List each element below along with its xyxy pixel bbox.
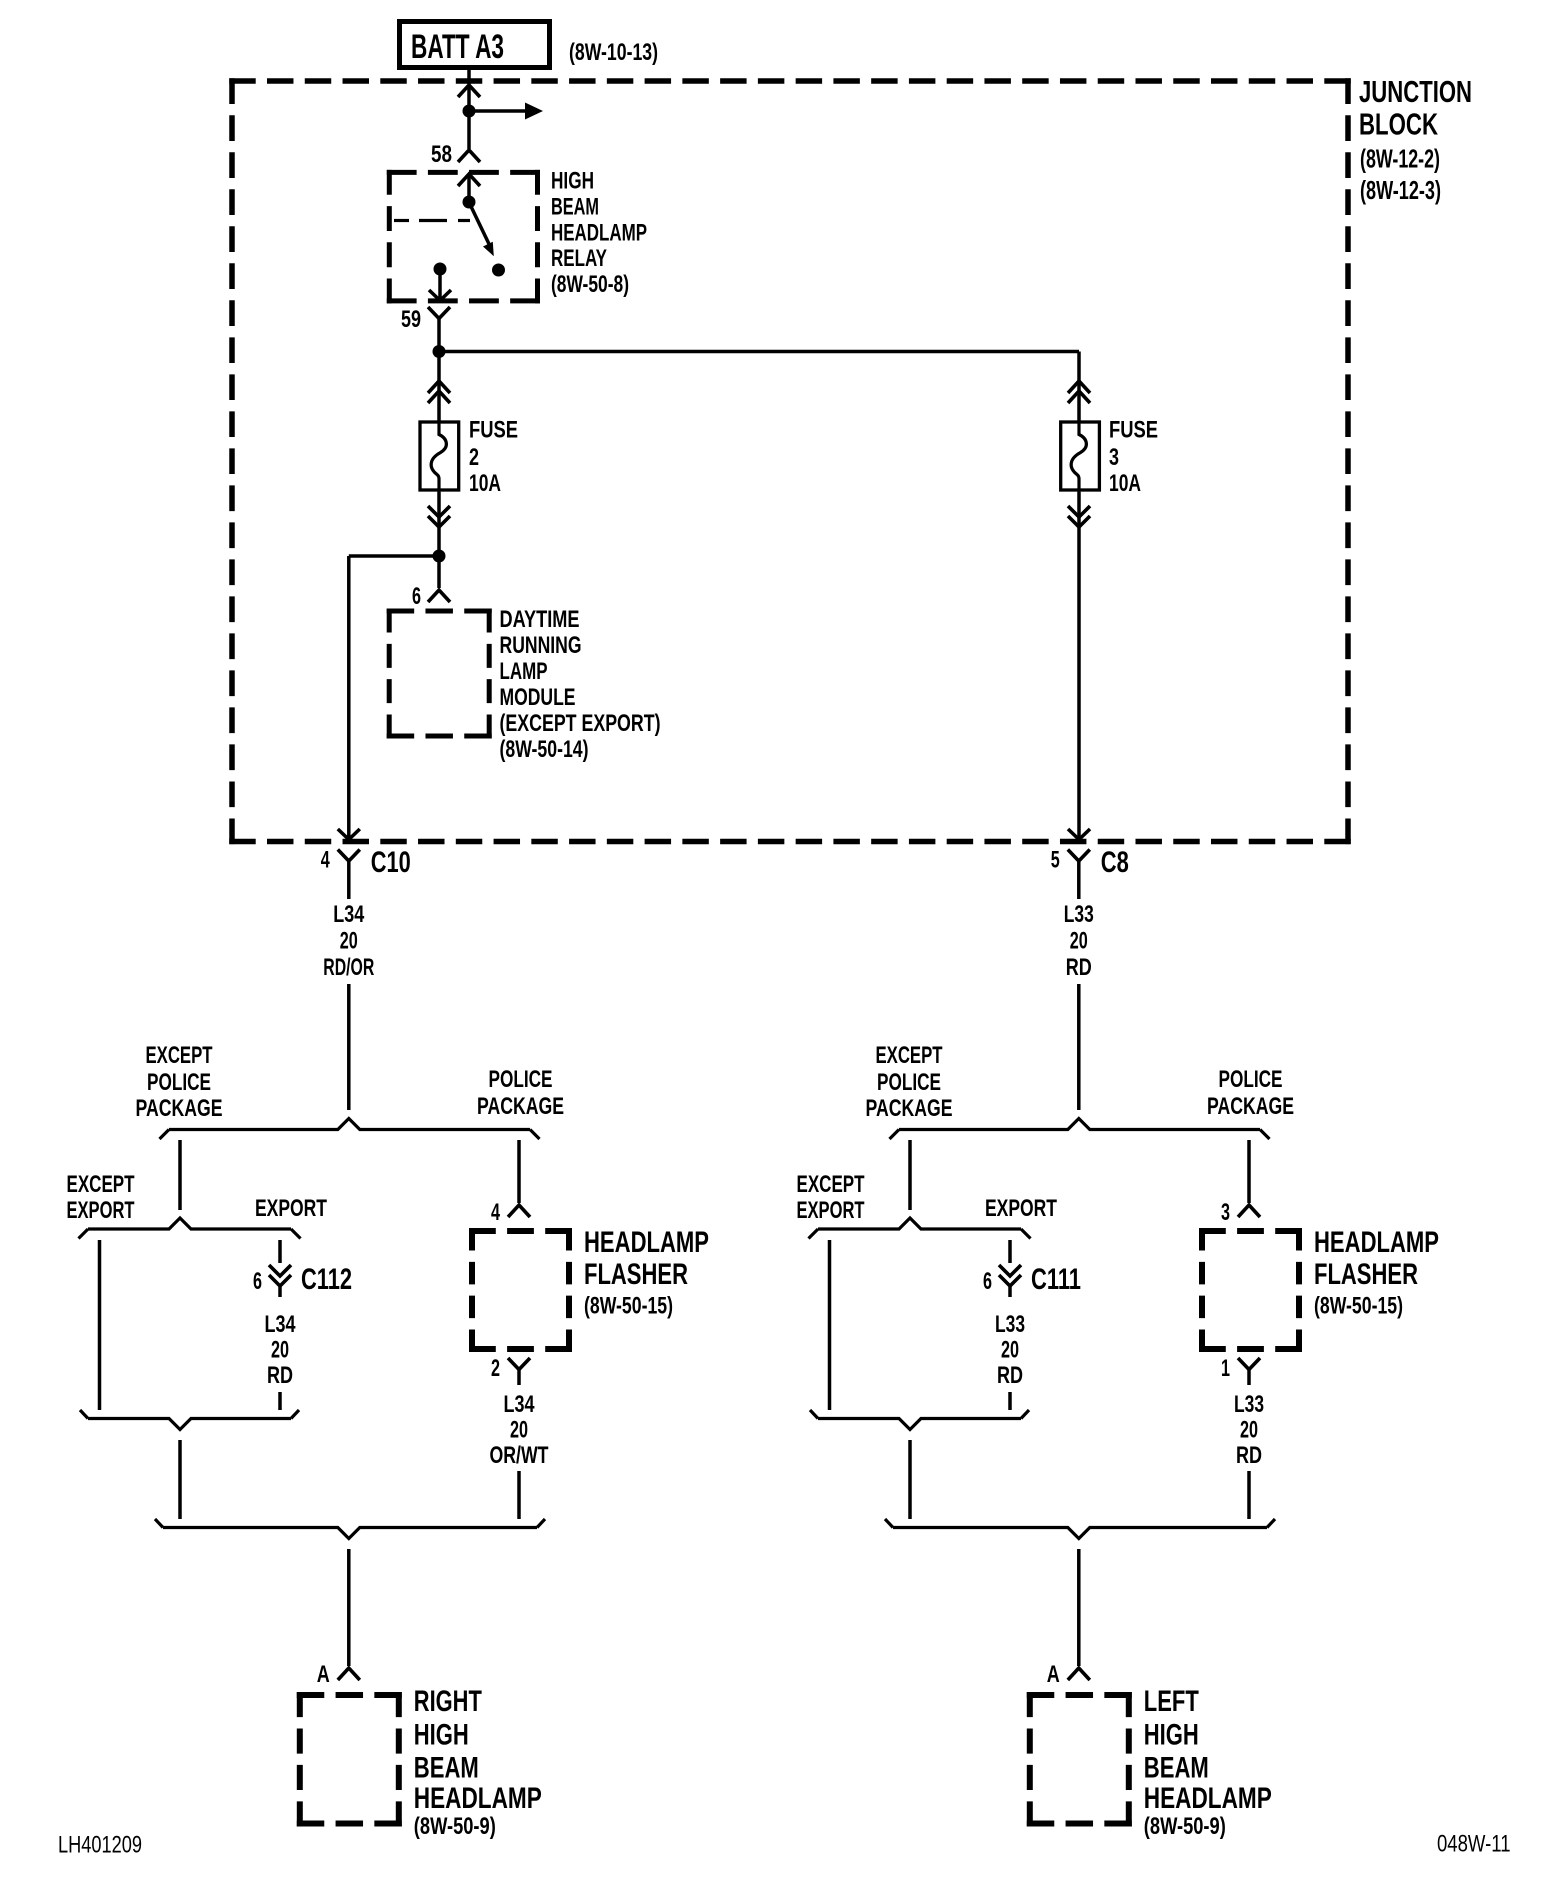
svg-text:10A: 10A [1109, 470, 1141, 497]
svg-text:EXPORT: EXPORT [985, 1195, 1057, 1222]
svg-text:(8W-50-8): (8W-50-8) [551, 271, 629, 298]
svg-text:JUNCTION: JUNCTION [1359, 74, 1472, 109]
svg-text:FUSE: FUSE [469, 417, 518, 444]
svg-text:L34: L34 [265, 1311, 296, 1338]
svg-text:L34: L34 [504, 1391, 535, 1418]
svg-text:LEFT: LEFT [1144, 1685, 1199, 1718]
svg-text:L33: L33 [1064, 901, 1094, 928]
svg-text:L33: L33 [1234, 1391, 1264, 1418]
svg-text:1: 1 [1221, 1355, 1230, 1382]
svg-text:3: 3 [1109, 444, 1119, 471]
svg-text:EXCEPT: EXCEPT [146, 1042, 213, 1069]
svg-text:A: A [1047, 1661, 1060, 1688]
svg-text:20: 20 [1240, 1417, 1258, 1444]
svg-text:RD: RD [1066, 954, 1092, 981]
svg-text:C112: C112 [301, 1263, 352, 1296]
svg-text:20: 20 [1001, 1337, 1019, 1364]
svg-text:20: 20 [1070, 928, 1088, 955]
svg-text:EXCEPT: EXCEPT [797, 1171, 865, 1198]
svg-text:RD: RD [997, 1362, 1023, 1389]
svg-text:HEADLAMP: HEADLAMP [1144, 1782, 1272, 1815]
svg-text:10A: 10A [469, 470, 501, 497]
svg-text:2: 2 [491, 1355, 500, 1382]
svg-text:BATT A3: BATT A3 [411, 28, 504, 66]
svg-text:BEAM: BEAM [1144, 1752, 1209, 1785]
svg-text:HEADLAMP: HEADLAMP [551, 220, 647, 247]
svg-text:FUSE: FUSE [1109, 417, 1158, 444]
svg-text:POLICE: POLICE [147, 1069, 211, 1096]
svg-text:C111: C111 [1031, 1263, 1081, 1296]
svg-text:C8: C8 [1101, 846, 1129, 879]
svg-text:(8W-50-9): (8W-50-9) [414, 1813, 496, 1840]
svg-text:PACKAGE: PACKAGE [136, 1095, 223, 1122]
svg-text:4: 4 [491, 1199, 500, 1226]
svg-text:RUNNING: RUNNING [500, 632, 582, 659]
svg-text:(EXCEPT EXPORT): (EXCEPT EXPORT) [500, 710, 661, 737]
svg-text:6: 6 [412, 583, 421, 610]
svg-text:(8W-50-9): (8W-50-9) [1144, 1813, 1226, 1840]
svg-text:3: 3 [1221, 1199, 1230, 1226]
svg-text:MODULE: MODULE [500, 684, 576, 711]
svg-text:C10: C10 [371, 846, 411, 879]
svg-text:BEAM: BEAM [551, 194, 599, 221]
svg-text:20: 20 [340, 928, 358, 955]
svg-text:(8W-50-14): (8W-50-14) [500, 736, 589, 763]
svg-text:LAMP: LAMP [500, 658, 548, 685]
svg-text:PACKAGE: PACKAGE [477, 1093, 564, 1120]
svg-text:RD/OR: RD/OR [323, 954, 374, 981]
svg-text:HEADLAMP: HEADLAMP [1314, 1226, 1439, 1259]
svg-text:BEAM: BEAM [414, 1752, 479, 1785]
svg-text:6: 6 [253, 1268, 262, 1295]
svg-text:20: 20 [510, 1417, 528, 1444]
svg-text:PACKAGE: PACKAGE [866, 1095, 953, 1122]
svg-text:A: A [317, 1661, 330, 1688]
svg-text:HEADLAMP: HEADLAMP [414, 1782, 542, 1815]
svg-text:HIGH: HIGH [1144, 1719, 1199, 1752]
svg-text:59: 59 [401, 306, 421, 333]
svg-text:BLOCK: BLOCK [1359, 107, 1438, 142]
svg-text:EXPORT: EXPORT [67, 1197, 135, 1224]
svg-text:2: 2 [469, 444, 479, 471]
svg-text:HIGH: HIGH [551, 168, 594, 195]
svg-text:048W-11: 048W-11 [1437, 1831, 1511, 1858]
svg-text:RELAY: RELAY [551, 245, 607, 272]
svg-text:RD: RD [267, 1362, 293, 1389]
svg-text:(8W-10-13): (8W-10-13) [569, 39, 658, 66]
svg-text:HEADLAMP: HEADLAMP [584, 1226, 709, 1259]
svg-text:(8W-50-15): (8W-50-15) [1314, 1293, 1403, 1320]
svg-text:EXPORT: EXPORT [797, 1197, 865, 1224]
svg-text:EXCEPT: EXCEPT [67, 1171, 135, 1198]
svg-text:5: 5 [1051, 847, 1060, 874]
svg-text:EXCEPT: EXCEPT [876, 1042, 943, 1069]
svg-text:4: 4 [321, 847, 330, 874]
svg-text:LH401209: LH401209 [58, 1832, 142, 1859]
svg-text:20: 20 [271, 1337, 289, 1364]
svg-text:POLICE: POLICE [1219, 1066, 1283, 1093]
svg-text:6: 6 [983, 1268, 992, 1295]
svg-text:L34: L34 [333, 901, 364, 928]
svg-text:POLICE: POLICE [877, 1069, 941, 1096]
svg-text:(8W-12-3): (8W-12-3) [1360, 175, 1441, 205]
svg-text:RIGHT: RIGHT [414, 1685, 482, 1718]
svg-text:FLASHER: FLASHER [584, 1258, 688, 1291]
svg-text:EXPORT: EXPORT [255, 1195, 327, 1222]
svg-text:58: 58 [431, 141, 452, 168]
svg-text:L33: L33 [995, 1311, 1025, 1338]
svg-text:POLICE: POLICE [489, 1066, 553, 1093]
svg-text:OR/WT: OR/WT [490, 1442, 549, 1469]
svg-text:DAYTIME: DAYTIME [500, 606, 580, 633]
svg-text:PACKAGE: PACKAGE [1207, 1093, 1294, 1120]
svg-text:FLASHER: FLASHER [1314, 1258, 1418, 1291]
svg-text:HIGH: HIGH [414, 1719, 469, 1752]
svg-text:(8W-12-2): (8W-12-2) [1360, 144, 1440, 174]
svg-text:(8W-50-15): (8W-50-15) [584, 1293, 673, 1320]
svg-text:RD: RD [1236, 1442, 1262, 1469]
